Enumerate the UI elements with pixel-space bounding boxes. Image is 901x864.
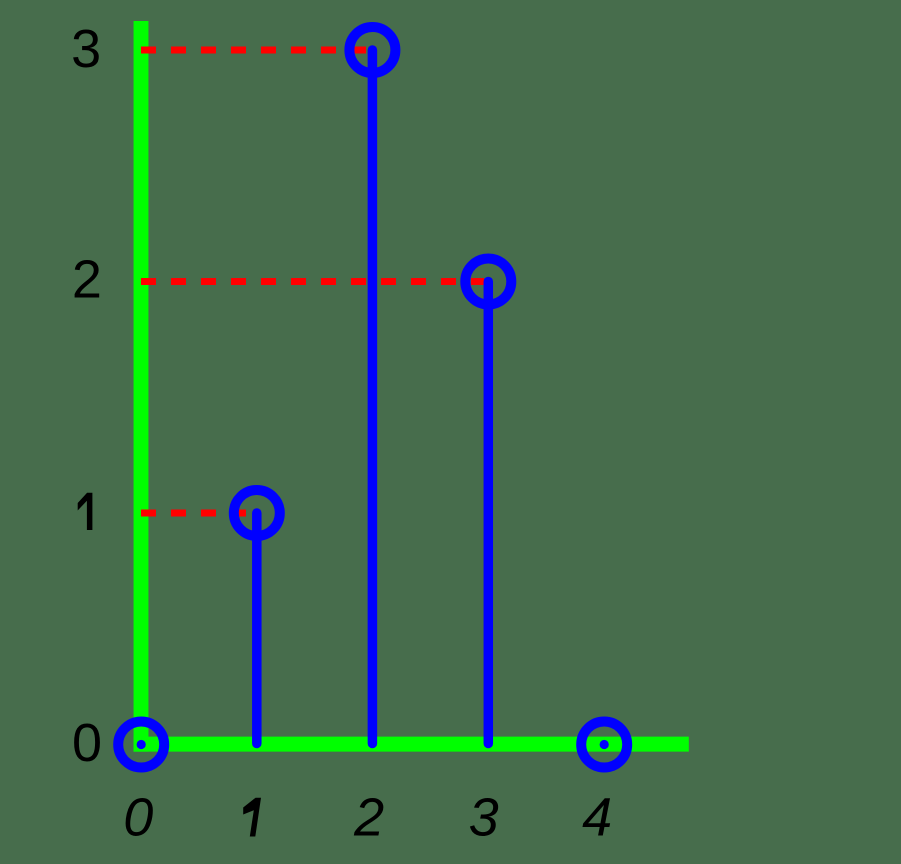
svg-text:2: 2 [72,250,102,310]
svg-text:2: 2 [353,787,384,847]
center dot n=4 [600,740,609,749]
svg-text:0: 0 [72,713,102,773]
svg-text:3: 3 [71,19,101,79]
marker circle n=3 [465,259,511,305]
y tick label 1 [78,493,93,530]
svg-text:3: 3 [469,787,499,847]
marker circle n=0 [118,722,164,768]
svg-text:0: 0 [123,787,153,847]
center dot n=0 [137,740,146,749]
dashed level line y=3 (red) [141,47,368,54]
x tick label 1 [243,798,261,837]
svg-text:4: 4 [582,787,612,847]
marker circle n=2 [349,27,395,73]
marker circle n=1 [234,490,280,536]
stem n=1 (blue) [252,513,262,744]
x-axis (green) [134,737,689,752]
marker circle n=4 [581,722,627,768]
stem n=2 (blue) [368,50,378,744]
y-axis (green) [134,21,149,752]
stem n=3 (blue) [484,282,494,744]
dashed level line y=1 (red) [141,510,252,517]
dashed level line y=2 (red) [141,278,484,285]
